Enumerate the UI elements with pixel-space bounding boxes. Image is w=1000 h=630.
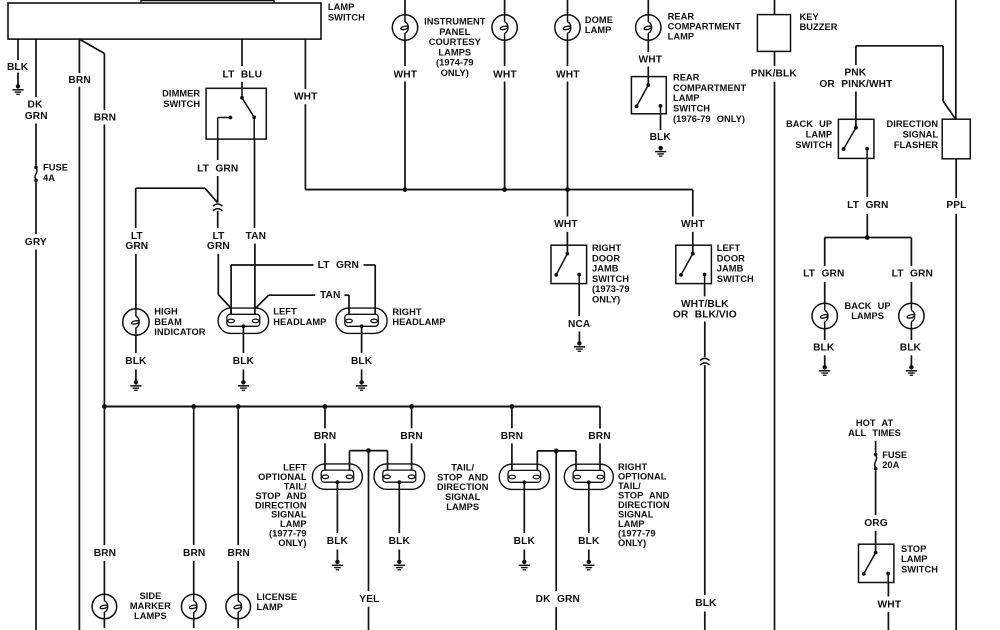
svg-text:ONLY): ONLY) [278,538,306,548]
svg-text:BRN: BRN [68,75,90,86]
wire [35,182,37,234]
wire to high beam indicator [136,187,205,189]
wire DK GRN [35,39,37,97]
svg-text:TAIL/: TAIL/ [284,481,307,491]
wire PPL below flasher [955,159,957,198]
dome lamp [555,15,580,40]
svg-text:SIGNAL: SIGNAL [618,509,654,519]
svg-text:DOOR: DOOR [717,253,745,263]
wire [361,370,363,381]
svg-text:SWITCH: SWITCH [592,274,629,284]
svg-text:SIGNAL: SIGNAL [903,130,939,140]
wire BLK [361,326,363,353]
svg-text:BRN: BRN [501,431,523,442]
svg-text:BLK: BLK [125,356,147,367]
wire LT GRN [866,158,868,197]
wire [404,82,406,190]
wire courtesy lamp 1 [404,0,406,15]
wire rear compartment lamp [647,0,649,15]
wire BLK tail lamp [398,482,400,533]
wire jumper above lamp switch [141,1,274,3]
rear compartment lamp switch contacts [647,77,649,85]
svg-text:ONLY): ONLY) [618,538,646,548]
svg-text:WHT: WHT [556,69,580,80]
ground [130,380,141,390]
svg-text:SIDE: SIDE [139,591,161,601]
wire [217,176,219,203]
svg-text:DIRECTION: DIRECTION [437,482,489,492]
side marker 1 lamp [92,594,117,619]
svg-text:LT GRN: LT GRN [847,200,888,211]
svg-text:SWITCH: SWITCH [163,99,200,109]
svg-text:COMPARTMENT: COMPARTMENT [673,83,746,93]
wire BRN 2 cont [103,125,105,407]
wire [692,232,694,245]
svg-text:BRN: BRN [400,431,422,442]
courtesy lamp 1 [392,15,417,40]
svg-text:LAMP: LAMP [328,2,355,12]
svg-text:BLK: BLK [389,536,411,547]
svg-text:MARKER: MARKER [130,601,171,611]
svg-text:JAMB: JAMB [592,264,619,274]
wire BLK [704,365,706,595]
svg-text:DOME: DOME [585,15,613,25]
wire [237,619,239,628]
tail/stop lamp 3 [499,464,549,489]
wire to flasher [942,46,944,101]
wire [875,441,877,453]
svg-text:GRN: GRN [25,111,48,122]
wire to left headlamp [254,244,256,315]
wire [647,40,649,52]
wire BRN side marker 2 [193,407,195,546]
wire BRN bus end drop [599,407,601,429]
wire link tail lamps 1-2 [350,450,388,452]
fuse 4A [34,165,38,182]
svg-text:WHT: WHT [554,219,578,230]
svg-text:HIGH: HIGH [154,307,178,317]
svg-text:DIRECTION: DIRECTION [887,119,939,129]
wire backup lamps split [825,237,912,239]
wire BRN [511,407,513,429]
wire key buzzer [774,0,776,15]
ground [356,380,367,390]
junction license [236,404,241,409]
back up lamp switch box [838,119,874,158]
wire [887,612,889,630]
junction [502,187,507,192]
svg-text:WHT: WHT [294,92,318,103]
ground [238,380,249,390]
svg-text:WHT: WHT [639,54,663,65]
wire [217,211,219,228]
wire WHT bus [305,189,692,191]
wire to left headlamp [217,254,219,295]
svg-text:PPL: PPL [946,200,966,211]
svg-text:LT GRN: LT GRN [803,269,844,280]
svg-text:SIGNAL: SIGNAL [271,510,307,520]
svg-text:YEL: YEL [359,594,379,605]
svg-text:20A: 20A [882,460,899,470]
wire [647,67,649,77]
left optional tail lamp [312,464,362,489]
svg-text:NCA: NCA [568,319,591,330]
wire [364,264,376,266]
svg-text:LAMPS: LAMPS [134,611,167,621]
svg-text:PNK: PNK [844,68,866,79]
wire [523,550,525,560]
wire [404,40,406,66]
wire [955,214,957,630]
wire [578,332,580,342]
svg-text:BLK: BLK [813,343,835,354]
right headlamp [336,308,387,333]
wire BLK from lamp switch [17,39,19,60]
wire [304,104,306,189]
wire [103,619,105,628]
junction tail lamp feed [510,404,515,409]
svg-text:LT GRN: LT GRN [318,260,359,271]
wire [504,40,506,66]
ground [583,560,594,570]
svg-text:OR BLK/VIO: OR BLK/VIO [673,310,737,321]
svg-text:BLK: BLK [578,536,600,547]
wire courtesy lamp 2 [504,0,506,15]
wire [704,612,706,630]
svg-text:BLK: BLK [514,536,536,547]
wire [135,254,137,309]
dimmer switch contacts [218,88,256,139]
svg-text:SIGNAL: SIGNAL [445,492,481,502]
wire link tail lamps 3-4 [537,450,576,452]
wire [704,322,706,357]
svg-text:BLK: BLK [233,356,255,367]
svg-text:WHT: WHT [493,69,517,80]
svg-text:BRN: BRN [314,431,336,442]
svg-text:BEAM: BEAM [154,317,182,327]
wire WHT/BLK [704,284,706,297]
svg-text:TAIL/: TAIL/ [451,463,474,473]
wire WHT from lamp switch [304,39,306,89]
svg-text:OPTIONAL: OPTIONAL [618,472,667,482]
courtesy lamp 2 [492,15,517,40]
svg-text:SWITCH: SWITCH [717,274,754,284]
svg-text:WHT: WHT [681,219,705,230]
svg-text:4A: 4A [43,173,55,183]
junction dome wire at bus [567,190,569,217]
ground [12,84,23,94]
wire YEL [368,451,370,591]
wire BLK [824,329,826,340]
junction [403,187,408,192]
svg-text:ALL TIMES: ALL TIMES [848,428,901,438]
wire GRY [35,250,37,630]
wire BRN 2 diagonal [79,39,104,53]
wire WHT to left door jamb [692,190,694,217]
wire BRN side marker 1 [103,407,105,546]
wire [241,82,243,89]
right optional tail lamp [564,464,613,489]
svg-text:BRN: BRN [94,548,116,559]
wire BRN [411,407,413,429]
svg-text:GRN: GRN [125,241,148,252]
svg-text:BACK UP: BACK UP [786,119,832,129]
wire [504,82,506,190]
ground [574,341,585,351]
wire BLK [135,335,137,353]
svg-text:GRY: GRY [25,237,47,248]
wire TAN from dimmer [254,139,256,228]
key buzzer box [757,15,790,52]
svg-text:LAMPS: LAMPS [438,47,471,57]
svg-text:LT GRN: LT GRN [892,269,933,280]
svg-text:LAMP: LAMP [585,25,612,35]
svg-text:LAMP: LAMP [806,130,833,140]
wire [910,282,912,304]
backup lamp [812,303,837,328]
wire [875,531,877,544]
lamp switch box [8,3,321,39]
wire [242,370,244,381]
wire [324,443,326,470]
svg-text:BRN: BRN [228,548,250,559]
junction brown bus [102,404,107,409]
ground [332,560,343,570]
ground [906,365,917,375]
svg-text:BLK: BLK [327,536,349,547]
wire [774,82,776,630]
svg-text:COURTESY: COURTESY [429,37,482,47]
high beam indicator lamp [123,309,149,335]
backup lamp [899,303,924,328]
wire [398,550,400,560]
wire WHT [887,583,889,597]
svg-text:DIMMER: DIMMER [162,89,200,99]
wire TAN headlamp link [255,295,268,308]
left headlamp [218,308,269,333]
svg-text:SWITCH: SWITCH [795,140,832,150]
svg-text:DK GRN: DK GRN [536,594,580,605]
wire PNK/BLK [774,51,776,66]
svg-text:TAIL/: TAIL/ [618,481,641,491]
ground [655,146,666,156]
wire [567,40,569,66]
wire BLK tail lamp [523,482,525,533]
wire BRN 1 cont [78,87,80,630]
svg-text:BLK: BLK [7,62,29,73]
svg-text:INDICATOR: INDICATOR [154,327,205,337]
svg-text:WHT/BLK: WHT/BLK [681,299,729,310]
svg-text:FUSE: FUSE [882,450,907,460]
svg-text:ORG: ORG [864,518,888,529]
junction tail lamp feed [323,404,328,409]
wire [368,607,370,630]
wire PNK branch [856,45,943,47]
connector [700,358,709,365]
svg-text:SWITCH: SWITCH [673,104,710,114]
right door jamb switch contacts [566,245,568,253]
wire [866,214,868,238]
wire BRN 1 [78,39,80,73]
svg-text:HEADLAMP: HEADLAMP [273,317,326,327]
svg-text:TAN: TAN [320,290,340,301]
stop lamp switch contacts [875,544,877,552]
left door jamb switch box [676,245,712,283]
stop lamp switch box [859,544,894,582]
wire [855,92,857,120]
svg-text:DK: DK [28,100,43,111]
junction [565,187,570,192]
wire [824,282,826,304]
svg-text:LT GRN: LT GRN [197,163,238,174]
wire BLK [910,329,912,340]
wire [135,370,137,381]
right door jamb switch box [551,245,587,283]
svg-text:BRN: BRN [183,548,205,559]
license lamp [226,594,251,619]
wire BLK tail lamp [588,482,590,533]
dimmer switch box [206,88,266,139]
svg-text:FUSE: FUSE [43,163,68,173]
svg-text:LAMP: LAMP [257,602,284,612]
svg-text:OPTIONAL: OPTIONAL [258,472,307,482]
wire [411,443,413,470]
wire [566,232,568,245]
tail/stop lamp 2 [374,464,425,489]
wire BRN bus [104,406,600,408]
rear compartment lamp switch box [631,77,666,114]
svg-text:LAMP: LAMP [668,32,695,42]
wire PPL from top [955,0,957,119]
svg-text:WHT: WHT [394,69,418,80]
svg-text:HOT AT: HOT AT [856,418,894,428]
svg-text:ONLY): ONLY) [441,68,469,78]
svg-text:LAMP: LAMP [901,554,928,564]
rear compartment lamp [636,15,661,40]
wire [103,561,105,595]
svg-text:BLK: BLK [351,356,373,367]
ground [819,365,830,375]
svg-text:OR PINK/WHT: OR PINK/WHT [819,79,893,90]
svg-text:LAMPS: LAMPS [851,311,884,321]
wire [511,443,513,470]
direction signal flasher box [942,119,970,159]
wire LT BLU [241,39,243,66]
wire [237,561,239,595]
fuse 20A [874,453,878,471]
ground [394,560,405,570]
svg-text:LICENSE: LICENSE [257,592,298,602]
wire [336,550,338,560]
wire ORG [875,470,877,515]
svg-text:JAMB: JAMB [717,264,744,274]
wire BLK [242,326,244,353]
wire [193,619,195,628]
wire NCA [578,284,580,316]
svg-text:BLK: BLK [695,598,717,609]
wire BRN [324,407,326,429]
svg-text:BUZZER: BUZZER [800,22,838,32]
svg-text:INSTRUMENT: INSTRUMENT [424,17,486,27]
svg-text:BLK: BLK [900,343,922,354]
svg-text:TAN: TAN [246,231,266,242]
svg-text:(1973-79: (1973-79 [592,284,630,294]
svg-text:HEADLAMP: HEADLAMP [392,317,445,327]
svg-text:PNK/BLK: PNK/BLK [751,69,798,80]
svg-text:LT BLU: LT BLU [223,70,263,81]
wire [567,82,569,190]
svg-text:BLK: BLK [650,132,672,143]
wire LT GRN from dimmer [217,139,219,160]
svg-text:SWITCH: SWITCH [328,13,365,23]
svg-text:WHT: WHT [878,599,902,610]
wire BLK tail lamp [336,482,338,533]
side marker 2 lamp [181,594,206,619]
ground [519,560,530,570]
back up lamp switch contacts [855,119,857,127]
svg-text:PANEL: PANEL [439,27,470,37]
wire LT GRN backup lamp [824,238,826,267]
wire [555,607,557,630]
wire DK GRN [555,451,557,591]
svg-text:STOP: STOP [901,544,926,554]
junction DK GRN [554,449,559,454]
svg-text:LAMP: LAMP [673,93,700,103]
svg-text:LAMPS: LAMPS [446,502,479,512]
wire [345,294,350,296]
svg-text:DOOR: DOOR [592,253,620,263]
svg-text:LEFT: LEFT [273,307,297,317]
svg-text:FLASHER: FLASHER [894,140,938,150]
svg-text:LAMP: LAMP [280,519,307,529]
left door jamb switch contacts [692,245,694,253]
wire [910,355,912,365]
junction [865,235,870,240]
svg-text:(1977-79: (1977-79 [618,528,656,538]
svg-text:(1974-79: (1974-79 [436,58,474,68]
wire BLK [660,114,662,130]
svg-text:STOP AND: STOP AND [437,472,488,482]
svg-text:GRN: GRN [207,241,230,252]
svg-text:BACK UP: BACK UP [844,301,890,311]
svg-text:(1976-79 ONLY): (1976-79 ONLY) [673,114,745,124]
wire LT GRN backup lamp [910,238,912,267]
wire [824,355,826,365]
svg-text:SWITCH: SWITCH [901,564,938,574]
wire [193,561,195,595]
svg-text:BRN: BRN [588,431,610,442]
svg-text:COMPARTMENT: COMPARTMENT [668,22,741,32]
junction tail lamp feed [409,404,414,409]
svg-text:REAR: REAR [668,12,695,22]
wire LT GRN headlamp link [230,265,232,315]
svg-text:REAR: REAR [673,73,700,83]
svg-text:BRN: BRN [94,112,116,123]
wire BRN license [237,407,239,546]
svg-text:KEY: KEY [800,12,820,22]
junction side marker 2 [191,404,196,409]
wire [35,124,37,166]
wire dome lamp [567,0,569,15]
svg-text:LEFT: LEFT [717,243,741,253]
connector [213,204,222,211]
svg-text:RIGHT: RIGHT [392,307,421,317]
junction YEL [366,448,371,453]
svg-text:RIGHT: RIGHT [592,243,621,253]
svg-text:ONLY): ONLY) [592,295,620,305]
wire [588,550,590,560]
